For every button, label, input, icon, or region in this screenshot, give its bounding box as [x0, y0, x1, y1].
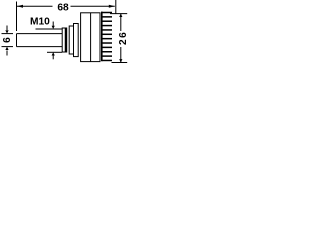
body rect: [81, 13, 100, 62]
nut inner line: [65, 28, 67, 52]
6 dim top tick: [2, 33, 14, 35]
dimensional drawing of rotary switch: [0, 0, 129, 67]
26 dim top arrowhead: [119, 14, 122, 17]
svg-text:6: 6: [2, 37, 13, 43]
26 dim line lower segment: [120, 47, 122, 63]
68 dim: right extension line: [115, 0, 117, 14]
68 dim: left extension line: [16, 2, 18, 32]
M10 bottom arrow stem: [52, 56, 54, 60]
68 dim line left segment: [17, 5, 53, 7]
68 dim left arrowhead: [17, 5, 23, 8]
26 dim line upper segment: [120, 14, 122, 31]
pin wafer vertical line: [101, 12, 103, 62]
6 dim top arrowhead: [5, 30, 8, 33]
shaft left edge: [16, 34, 18, 47]
body inner line: [90, 13, 92, 62]
flange rect: [74, 24, 79, 57]
M10 top arrow stem: [52, 22, 54, 27]
M10 top arrowhead: [52, 26, 55, 29]
6 dim top arrow stem: [6, 26, 8, 31]
shaft top edge: [17, 33, 63, 35]
nut rect: [62, 28, 66, 52]
68 dim line right segment: [71, 5, 115, 7]
pins x12: [102, 12, 113, 14]
68 dim right arrowhead: [109, 5, 115, 8]
thread crest top line: [36, 28, 63, 30]
M10 bottom arrowhead: [52, 52, 55, 55]
26 dim bottom extension line: [112, 62, 128, 64]
svg-text:26: 26: [118, 31, 129, 45]
washer rect: [69, 26, 73, 54]
26 dim top extension line: [110, 13, 127, 15]
6 dim bottom tick: [2, 46, 14, 48]
shaft bottom edge: [17, 46, 63, 48]
thread crest bottom line: [47, 51, 62, 53]
svg-text:68: 68: [57, 2, 69, 13]
svg-text:M10: M10: [30, 16, 50, 27]
6 dim bottom arrow stem: [6, 51, 8, 56]
26 dim bottom arrowhead: [119, 59, 122, 62]
6 dim bottom arrowhead: [5, 47, 8, 50]
